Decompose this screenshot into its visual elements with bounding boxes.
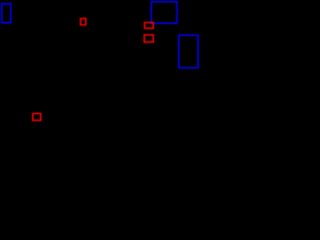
blue box F (right edge) [179, 35, 198, 68]
red box G (bottom-left) [33, 114, 41, 121]
red box E [144, 35, 153, 42]
red box B (top-middle) [81, 19, 86, 25]
blue box A (top-left) [2, 4, 11, 23]
blue box C (top-right) [151, 2, 177, 24]
red box D (overlaps blue box C corner) [145, 23, 154, 29]
